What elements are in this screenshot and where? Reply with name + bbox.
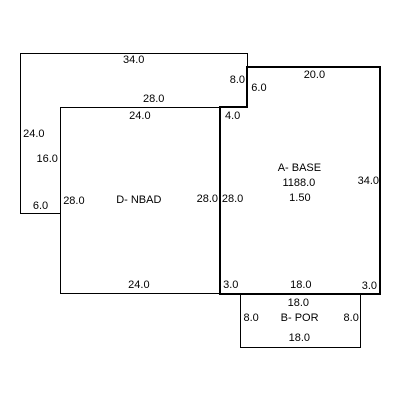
- room D-NBAD top wall (24.0): [60, 107, 221, 109]
- label 24.0 inside D-NBAD top: [129, 111, 150, 122]
- room D-NBAD left wall (28.0): [60, 107, 62, 294]
- wire: left addition bottom wall (6.0): [20, 213, 61, 215]
- label room name A- BASE: [278, 163, 321, 174]
- label 8.0 left wall of B-POR: [244, 313, 259, 324]
- label 34.0 top of left addition: [123, 55, 144, 66]
- wire: left addition top wall (34.0): [20, 53, 248, 55]
- label 24.0 bottom of D-NBAD: [128, 280, 149, 291]
- room B-POR right wall (8.0): [360, 294, 362, 348]
- label 18.0 bottom of A-BASE: [290, 280, 311, 291]
- label 3.0 bottom-right of A-BASE: [362, 281, 377, 292]
- label 18.0 top of B-POR: [288, 298, 309, 309]
- label 34.0 right wall of A-BASE: [358, 176, 379, 187]
- label 4.0 step wall of A-BASE: [225, 111, 240, 122]
- label 20.0 top of A-BASE: [304, 70, 325, 81]
- label 6.0 upper-left wall of A-BASE: [251, 83, 266, 94]
- label 8.0 right wall of B-POR: [344, 313, 359, 324]
- label 28.0 inside D-NBAD left: [63, 196, 84, 207]
- label 3.0 bottom-left of A-BASE: [223, 280, 238, 291]
- label 28.0 inside A-BASE left: [222, 194, 243, 205]
- label 16.0 inner wall of addition: [36, 154, 57, 165]
- label 8.0 right wall of addition: [230, 75, 245, 86]
- room D-NBAD bottom wall (24.0): [60, 293, 221, 295]
- label 18.0 bottom of B-POR: [289, 333, 310, 344]
- room B-POR left wall (8.0): [240, 294, 242, 348]
- label area 1188.0: [282, 178, 315, 189]
- label 28.0 above D-NBAD top: [143, 94, 164, 105]
- label 28.0 inside D-NBAD right: [197, 194, 218, 205]
- label 6.0 bottom of addition: [33, 201, 48, 212]
- room B-POR bottom wall (18.0): [240, 347, 361, 349]
- wire: left addition left wall (24.0): [20, 53, 22, 214]
- label room name D- NBAD: [116, 195, 161, 206]
- label 24.0 left wall of addition: [23, 129, 44, 140]
- label factor 1.50: [289, 193, 310, 204]
- room A-BASE outline (bold walls 6.0/4.0/28.0 left, 20.0 top, 34.0 right, 24.0 bottom): [220, 67, 380, 294]
- wire: left addition right wall (8.0): [247, 53, 249, 107]
- label room name B- POR: [281, 313, 319, 324]
